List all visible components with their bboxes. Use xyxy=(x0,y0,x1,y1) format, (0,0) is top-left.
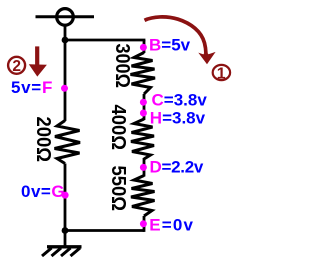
svg-text:C=3.8v: C=3.8v xyxy=(152,90,208,109)
svg-text:D=2.2v: D=2.2v xyxy=(150,158,204,177)
svg-text:550Ω: 550Ω xyxy=(107,166,129,212)
svg-text:H=3.8v: H=3.8v xyxy=(150,108,206,127)
svg-text:400Ω: 400Ω xyxy=(107,105,129,151)
svg-text:300Ω: 300Ω xyxy=(111,44,133,89)
svg-text:200Ω: 200Ω xyxy=(32,117,54,163)
svg-text:5v=F: 5v=F xyxy=(11,78,53,97)
svg-text:2: 2 xyxy=(12,58,21,75)
svg-text:1: 1 xyxy=(217,65,226,82)
svg-text:B=5v: B=5v xyxy=(149,36,191,55)
svg-text:0v=G: 0v=G xyxy=(21,182,65,201)
svg-text:E=0v: E=0v xyxy=(149,216,194,235)
